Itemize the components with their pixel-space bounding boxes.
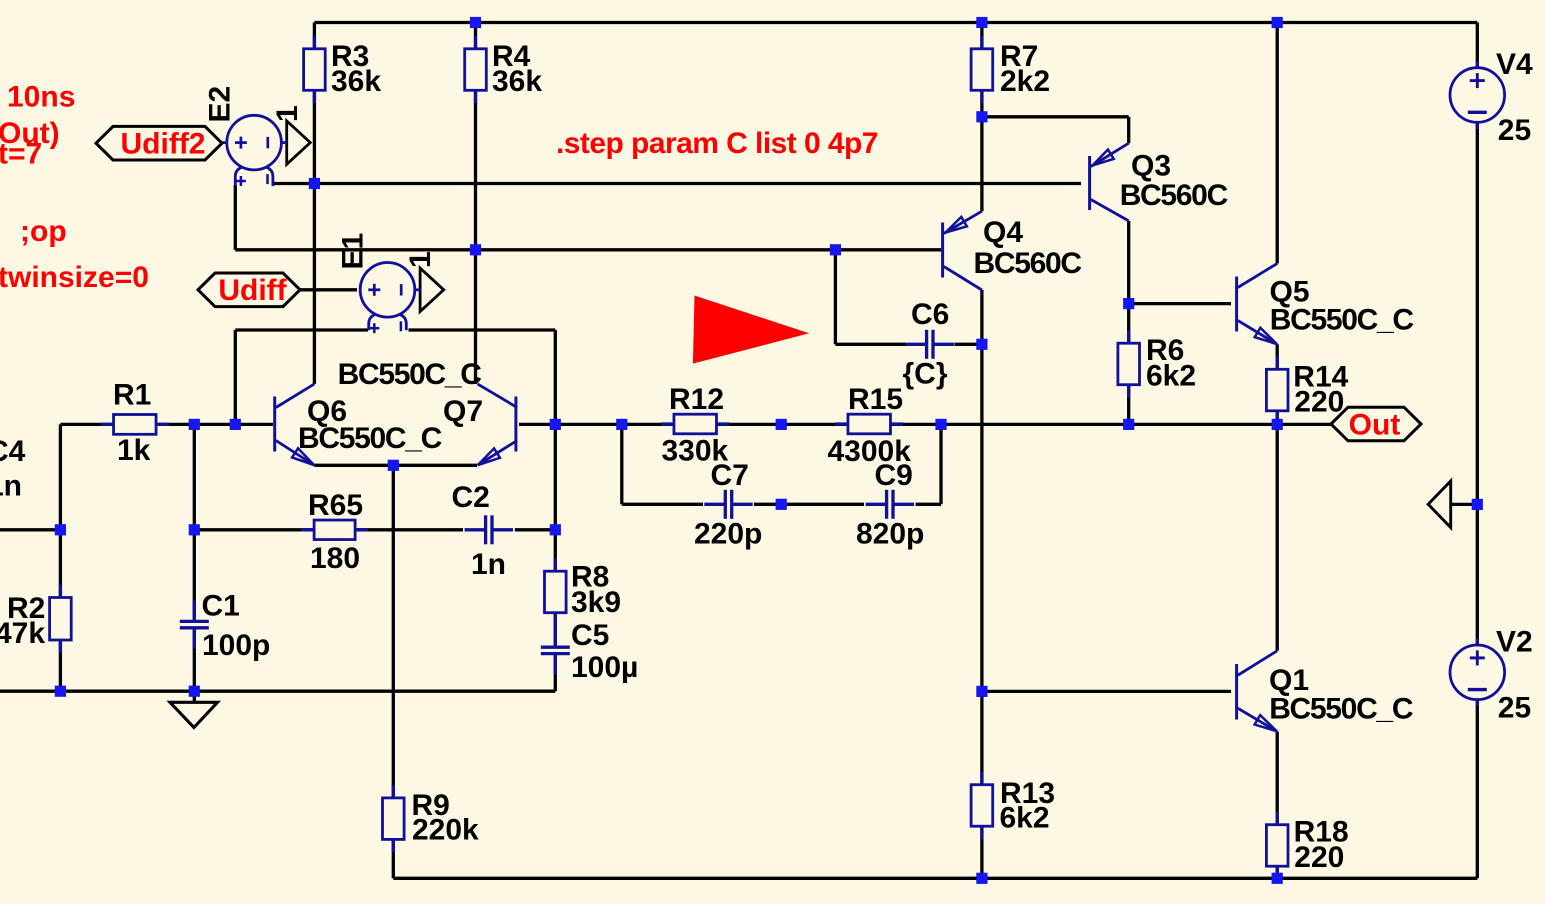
svg-text:R12: R12	[669, 383, 724, 416]
svg-text:100µ: 100µ	[571, 651, 638, 684]
svg-text:C2: C2	[452, 481, 490, 514]
svg-text:220p: 220p	[694, 518, 762, 551]
svg-text:25: 25	[1498, 114, 1531, 147]
svg-text:Udiff: Udiff	[218, 274, 287, 307]
svg-text:R15: R15	[848, 383, 903, 416]
svg-text:220: 220	[1294, 841, 1344, 874]
svg-text:1n: 1n	[471, 548, 506, 581]
svg-text:C1: C1	[202, 590, 240, 623]
svg-text:2k2: 2k2	[1000, 65, 1050, 98]
svg-text:;op: ;op	[20, 215, 67, 248]
svg-text:C5: C5	[571, 619, 609, 652]
svg-text:BC550C_C: BC550C_C	[298, 422, 442, 455]
svg-text:C4: C4	[0, 435, 26, 468]
svg-text:BC560C: BC560C	[1120, 179, 1228, 212]
svg-text:E2: E2	[204, 86, 237, 123]
svg-text:V4: V4	[1496, 48, 1533, 81]
svg-text:1n: 1n	[0, 470, 22, 503]
svg-text:Q7: Q7	[443, 395, 483, 428]
svg-text:3k9: 3k9	[571, 586, 621, 619]
svg-text:twinsize=0: twinsize=0	[0, 261, 149, 294]
svg-text:6k2: 6k2	[1146, 360, 1196, 393]
svg-text:{C}: {C}	[903, 358, 948, 391]
svg-text:BC560C: BC560C	[974, 247, 1082, 280]
svg-text:R65: R65	[308, 489, 363, 522]
svg-text:t=7: t=7	[0, 138, 42, 171]
svg-text:Q3: Q3	[1131, 149, 1171, 182]
svg-text:47k: 47k	[0, 617, 45, 650]
svg-text:820p: 820p	[856, 518, 924, 551]
svg-text:E1: E1	[337, 233, 370, 270]
svg-text:R1: R1	[113, 379, 151, 412]
svg-text:Q4: Q4	[983, 216, 1023, 249]
svg-text:BC550C_C: BC550C_C	[338, 358, 482, 391]
svg-text:1: 1	[271, 105, 304, 122]
svg-text:Out: Out	[1349, 408, 1401, 441]
svg-text:6k2: 6k2	[1000, 801, 1050, 834]
svg-text:C7: C7	[711, 459, 749, 492]
svg-text:1: 1	[404, 251, 437, 268]
svg-text:220k: 220k	[412, 813, 479, 846]
svg-text:10ns: 10ns	[7, 80, 75, 113]
svg-text:25: 25	[1498, 692, 1531, 725]
svg-text:C9: C9	[875, 459, 913, 492]
svg-text:Udiff2: Udiff2	[121, 128, 206, 161]
svg-text:220: 220	[1294, 385, 1344, 418]
svg-text:36k: 36k	[492, 65, 542, 98]
svg-text:C6: C6	[911, 298, 949, 331]
svg-text:100p: 100p	[202, 629, 270, 662]
svg-text:180: 180	[310, 542, 360, 575]
svg-text:BC550C_C: BC550C_C	[1269, 693, 1413, 726]
svg-text:V2: V2	[1496, 625, 1533, 658]
svg-text:BC550C_C: BC550C_C	[1270, 304, 1414, 337]
svg-text:1k: 1k	[117, 434, 151, 467]
svg-text:.step param C list 0 4p7: .step param C list 0 4p7	[556, 127, 878, 160]
svg-text:36k: 36k	[331, 65, 381, 98]
